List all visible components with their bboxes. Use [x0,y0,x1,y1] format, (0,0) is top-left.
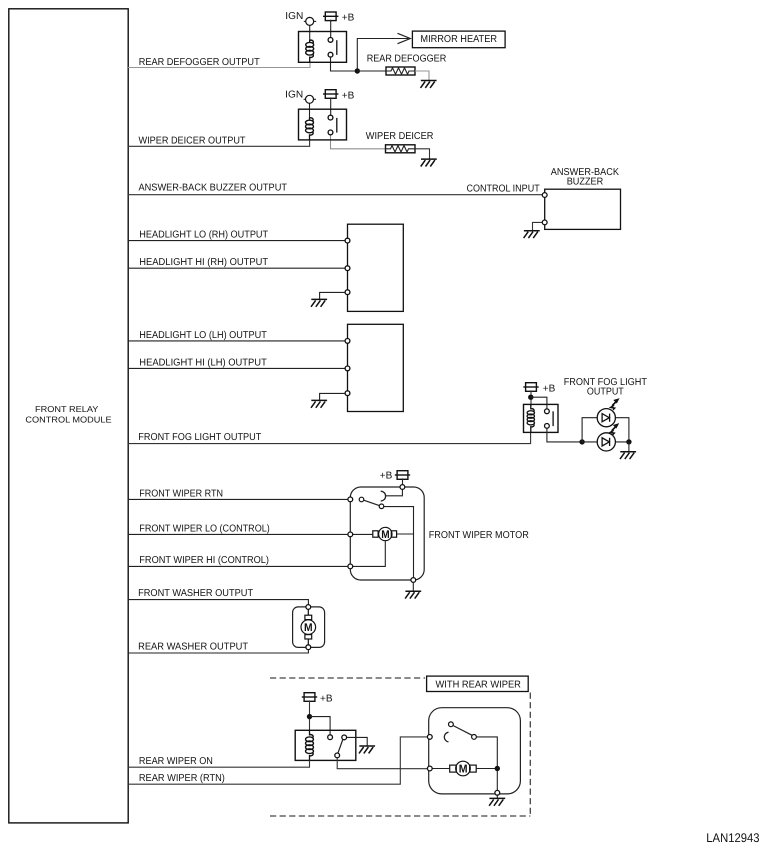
svg-text:WIPER DEICER: WIPER DEICER [366,131,434,142]
ground for wiper deicer [421,159,437,166]
park switch blade [359,497,364,502]
wire REAR WIPER ON [128,760,310,767]
svg-text:ANSWER-BACK BUZZER OUTPUT: ANSWER-BACK BUZZER OUTPUT [139,183,288,194]
relay K1 blade [336,40,338,55]
svg-text:REAR WIPER ON: REAR WIPER ON [139,756,213,767]
wire park switch +B branch [386,489,403,495]
headlight RH pin LO [345,238,350,243]
wire motor left to pin [352,533,414,535]
relay K3 contacts [545,409,550,414]
wire junction to heater resistor [357,70,386,72]
svg-text:+B: +B [543,383,556,394]
node lamp junction left [579,439,584,444]
headlight RH pin HI [345,266,350,271]
svg-text:REAR WASHER OUTPUT: REAR WASHER OUTPUT [138,642,248,653]
wire motor bottom to HI pin [352,541,385,567]
svg-text:HEADLIGHT LO (LH) OUTPUT: HEADLIGHT LO (LH) OUTPUT [139,330,266,341]
motor M washer [301,609,316,644]
wire HEADLIGHT HI (LH) OUTPUT [128,367,345,369]
wire FRONT WASHER OUTPUT [128,600,308,605]
motor M front wiper [373,527,397,540]
wire lower lamp branch [582,441,629,443]
WITH REAR WIPER label box [427,676,529,691]
ground for front wiper motor [405,591,421,598]
headlight LH box [348,324,404,411]
ground for headlight RH [311,299,327,306]
wire FRONT WIPER RTN [128,498,348,500]
wire HEADLIGHT LO (LH) OUTPUT [128,340,345,342]
node junction below fuse [528,395,533,400]
svg-text:HEADLIGHT HI (RH) OUTPUT: HEADLIGHT HI (RH) OUTPUT [139,257,268,268]
wire headlight LH ground pin [320,393,345,400]
ground for rear defogger [421,81,437,88]
park switch arc contact [381,491,386,501]
wire junction to contact [310,717,331,735]
ground for buzzer [524,231,540,238]
relay K2 blade [336,118,338,133]
rear park switch blade [449,722,454,727]
buzzer terminal pins [542,193,547,198]
bolt arrow lamp 1 [611,398,620,410]
svg-text:WITH REAR WIPER: WITH REAR WIPER [436,679,521,690]
wire switch to inner bus [384,507,414,578]
fuse +B relay K1 [323,12,338,21]
relay K1 contact top [328,38,333,43]
svg-text:FRONT WIPER RTN: FRONT WIPER RTN [139,488,223,499]
dashed option boundary bottom [270,815,530,817]
dashed option boundary top [270,677,425,679]
svg-text:BUZZER: BUZZER [567,177,604,188]
ground for fog lamps [620,452,636,459]
svg-text:M: M [381,529,389,541]
fuse +B fog relay [523,383,538,392]
wire motor ground pin [412,582,414,591]
svg-text:LAN12943: LAN12943 [706,831,759,845]
svg-text:OUTPUT: OUTPUT [587,387,624,398]
relay K2 box [299,109,347,140]
svg-text:FRONT WIPER MOTOR: FRONT WIPER MOTOR [429,530,529,541]
relay K1 [285,11,354,62]
relay K1 coil [309,40,311,62]
wire junction to switch contact [531,397,547,409]
headlight LH pin GND [345,391,350,396]
svg-text:+B: +B [342,90,355,101]
svg-text:MIRROR HEATER: MIRROR HEATER [420,34,497,45]
wire FRONT WIPER HI (CONTROL) [128,565,348,567]
wire fuse to contact [330,20,332,38]
wire fuse to contact [330,97,332,115]
wire WIPER DEICER OUTPUT [128,140,310,146]
bolt arrow lamp 2 [610,423,619,435]
washer motor body [293,607,325,648]
rear park switch arc contact [444,732,448,742]
wire contact to ground [347,737,368,746]
wire junction to mirror heater arrow [357,39,408,69]
wire HEADLIGHT HI (RH) OUTPUT [128,267,345,269]
relay K2 contact top [328,115,333,120]
lamp fog light 1 [597,409,615,427]
fuse +B front wiper [395,471,410,480]
svg-text:REAR DEFOGGER: REAR DEFOGGER [367,53,447,64]
svg-text:REAR DEFOGGER OUTPUT: REAR DEFOGGER OUTPUT [139,57,260,68]
wire relay K2 switch output to resistor [331,135,387,149]
svg-text:REAR WIPER (RTN): REAR WIPER (RTN) [139,773,225,784]
buzzer box ANSWER-BACK BUZZER [545,189,621,229]
resistor WIPER DEICER heater element [386,145,416,153]
svg-text:IGN: IGN [285,90,303,101]
wire fuse to junction to coil [309,700,311,731]
svg-text:FRONT WIPER LO (CONTROL): FRONT WIPER LO (CONTROL) [139,524,269,535]
ground for headlight LH [311,400,327,407]
wire REAR WIPER (RTN) [128,737,427,784]
node junction below fuse [307,714,312,719]
resistor REAR DEFOGGER heater element [386,67,415,75]
washer motor pins [306,605,311,610]
svg-text:FRONT FOG LIGHT OUTPUT: FRONT FOG LIGHT OUTPUT [138,432,261,443]
ground for rear wiper relay [359,746,375,753]
relay K3 coil [530,404,532,432]
relay K2 contact bottom [328,130,333,135]
svg-text:HEADLIGHT LO (RH) OUTPUT: HEADLIGHT LO (RH) OUTPUT [139,229,268,240]
wire IGN lead to coil [309,25,311,40]
headlight LH pin HI [345,366,350,371]
relay K2 [285,90,354,140]
wire IGN lead to coil [309,103,311,118]
wire to ground [628,442,630,452]
ground for rear wiper motor [489,798,505,805]
front wiper motor pins [348,497,353,502]
relay K4 box [295,730,356,760]
motor M rear wiper [450,761,477,776]
svg-text:+B: +B [320,693,333,704]
svg-text:IGN: IGN [285,11,303,22]
wire resistor to ground [415,71,429,81]
connector IGN circle [304,20,316,22]
relay K3 blade [552,411,554,426]
wire relay K1 switch output to junction [331,57,355,71]
wire headlight RH ground pin [320,292,345,299]
relay K1 contact bottom [328,52,333,57]
svg-text:FRONT WASHER OUTPUT: FRONT WASHER OUTPUT [138,588,253,599]
headlight LH pin LO [345,339,350,344]
svg-text:+B: +B [342,13,355,24]
wire HEADLIGHT LO (RH) OUTPUT [128,240,345,242]
module FRONT RELAY CONTROL MODULE box [9,9,128,823]
node lamp junction right [626,439,631,444]
rear wiper motor pins [427,735,432,740]
wire resistor to ground [415,149,430,159]
wire REAR DEFOGGER OUTPUT [128,62,310,67]
wire ANSWER-BACK BUZZER OUTPUT / CONTROL INPUT [128,194,542,196]
svg-text:FRONT RELAY: FRONT RELAY [35,404,99,414]
svg-text:M: M [304,622,313,634]
dashed option boundary right [529,693,531,817]
fuse +B rear wiper relay [302,693,317,702]
relay K4 contacts and blade [328,735,333,740]
svg-text:CONTROL MODULE: CONTROL MODULE [25,415,111,425]
front wiper motor body [350,487,424,580]
wire motor leads [432,768,497,770]
node junction dot [355,68,360,73]
connector IGN circle [304,98,316,100]
wire relay K4 output to rear motor [337,758,427,769]
relay K3 box [524,404,559,432]
relay K1 box [299,32,347,63]
node motor-right junction [495,766,500,771]
headlight RH box [348,224,404,311]
relay K4 coil [309,730,311,760]
MIRROR HEATER box [412,31,505,48]
svg-text:+B: +B [380,470,393,481]
wire fuse to motor [402,478,404,484]
wire FRONT FOG LIGHT OUTPUT [128,432,531,443]
wire motor ground pin [496,795,498,798]
headlight RH pin GND [345,290,350,295]
wire fuse to junction to coil [530,390,532,406]
wire REAR WASHER OUTPUT [128,649,308,653]
wire buzzer pin2 to ground [533,222,543,230]
lamp fog light 2 [597,433,615,451]
svg-text:WIPER DEICER OUTPUT: WIPER DEICER OUTPUT [139,135,246,146]
svg-text:CONTROL INPUT: CONTROL INPUT [467,183,540,194]
rear wiper motor body [429,708,521,794]
svg-text:FRONT WIPER HI (CONTROL): FRONT WIPER HI (CONTROL) [139,555,269,566]
arrow into MIRROR HEATER [398,33,411,43]
wire relay K3 output to lamps [547,428,582,442]
wire upper lamp branch [582,418,629,442]
wire switch to right bus [476,737,497,791]
wire FRONT WIPER LO (CONTROL) [128,533,348,535]
relay K2 coil [309,118,311,140]
svg-text:M: M [459,764,468,776]
svg-text:HEADLIGHT HI (LH) OUTPUT: HEADLIGHT HI (LH) OUTPUT [139,357,266,368]
fuse +B relay K2 [323,90,338,99]
